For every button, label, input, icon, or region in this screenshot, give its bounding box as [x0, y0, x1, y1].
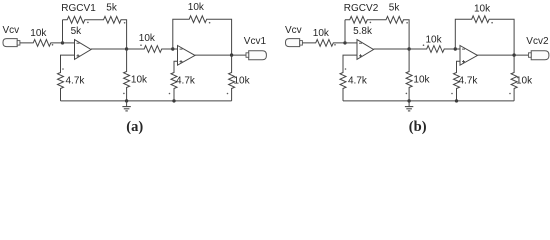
svg-text:10k: 10k: [313, 28, 330, 39]
svg-text:Vcv2: Vcv2: [526, 36, 549, 47]
svg-text:4.7k: 4.7k: [66, 75, 86, 86]
resistor 10k input, wire to node (a): [20, 40, 63, 47]
resistor 4.7k from U1b non-inverting input to bottom rail (a): [171, 61, 178, 101]
ground (a): [126, 101, 128, 107]
input port Vcv (b): [286, 39, 300, 47]
wire U1a output to node B (a): [91, 48, 127, 50]
junction node B (a): [125, 47, 128, 50]
svg-text:10k: 10k: [426, 34, 443, 45]
svg-text:10k: 10k: [516, 75, 533, 86]
junction ground node (a): [125, 99, 128, 102]
svg-text:(a): (a): [126, 119, 143, 135]
resistor 10k from node D to ground rail (b): [511, 55, 517, 101]
ground rail wire (b): [343, 100, 514, 102]
junction ground node (b): [407, 99, 410, 102]
wire node A to top rail (b): [344, 20, 346, 43]
junction node A (a): [61, 41, 64, 44]
svg-text:RGCV2: RGCV2: [344, 3, 379, 14]
wire U1b output to port Vcv1 (a): [195, 54, 246, 56]
junction node B (b): [407, 47, 410, 50]
svg-text:10k: 10k: [131, 75, 148, 86]
op-amp U1a (a): [75, 40, 92, 60]
svg-text:5.8k: 5.8k: [353, 26, 373, 37]
output port Vcv1 (a): [249, 51, 267, 60]
resistor 10k series between stages (b): [409, 46, 455, 53]
ground rail wire (a): [61, 100, 232, 102]
ground (b): [408, 101, 410, 107]
junction node A (b): [343, 41, 346, 44]
resistor RGCV2 and resistor 5k top rail with legs (b): [345, 16, 409, 49]
output port Vcv2 (b): [531, 51, 549, 60]
resistor 10k feedback of U1b (a): [173, 16, 232, 55]
junction node D (a): [230, 53, 233, 56]
svg-text:5k: 5k: [71, 26, 83, 37]
resistor 10k from node D to ground rail (a): [229, 55, 235, 101]
wire node C to op-amp U1b inverting input (a): [173, 48, 178, 50]
resistor 10k from node B to ground rail (a): [124, 49, 130, 101]
junction 4.7k-2 bottom node (a): [172, 99, 175, 102]
junction node D (b): [512, 53, 515, 56]
svg-text:RGCV1: RGCV1: [61, 3, 96, 14]
svg-text:10k: 10k: [139, 33, 156, 44]
svg-text:5k: 5k: [106, 2, 118, 13]
junction 4.7k-2 bottom node (b): [455, 99, 458, 102]
svg-text:10k: 10k: [413, 75, 430, 86]
svg-text:Vcv1: Vcv1: [244, 36, 267, 47]
resistor 4.7k from U1a non-inverting input to bottom rail (a): [58, 55, 75, 101]
svg-text:10k: 10k: [474, 4, 491, 15]
junction node C (b): [454, 47, 457, 50]
op-amp U2b (b): [460, 46, 478, 66]
pin dots (b): [334, 44, 336, 46]
wire U2a output to node B (b): [374, 48, 410, 50]
wire U2b output to port Vcv2 (b): [478, 54, 529, 56]
resistor 10k feedback of U2b (b): [455, 16, 514, 55]
resistor RGCV1 and resistor 5k top rail with legs (a): [63, 16, 127, 49]
resistor 10k series between stages (a): [127, 46, 173, 53]
svg-text:4.7k: 4.7k: [176, 76, 196, 87]
svg-text:10k: 10k: [234, 75, 251, 86]
svg-text:10k: 10k: [188, 2, 205, 13]
op-amp U1b (a): [178, 46, 196, 66]
resistor 4.7k from U2b non-inverting input to bottom rail (b): [454, 61, 461, 101]
junction node C (a): [171, 47, 174, 50]
wire node C to op-amp U2b inverting input (b): [455, 48, 460, 50]
resistor 10k from node B to ground rail (b): [406, 49, 412, 101]
wire node A to op-amp U2a inverting input (b): [345, 42, 357, 44]
svg-text:5k: 5k: [389, 2, 401, 13]
svg-text:4.7k: 4.7k: [348, 75, 368, 86]
resistor 10k input, wire to node (b): [302, 40, 345, 47]
op-amp U2a (b): [357, 40, 374, 60]
svg-text:4.7k: 4.7k: [459, 76, 479, 87]
svg-text:(b): (b): [409, 119, 427, 135]
svg-text:10k: 10k: [30, 28, 47, 39]
wire node A to top rail (a): [62, 20, 64, 43]
input port Vcv (a): [3, 39, 17, 47]
svg-text:Vcv: Vcv: [3, 25, 20, 36]
resistor 4.7k from U2a non-inverting input to bottom rail (b): [340, 55, 357, 101]
pin dots (a): [52, 44, 54, 46]
wire node A to op-amp U1a inverting input (a): [63, 42, 75, 44]
svg-text:Vcv: Vcv: [285, 25, 302, 36]
